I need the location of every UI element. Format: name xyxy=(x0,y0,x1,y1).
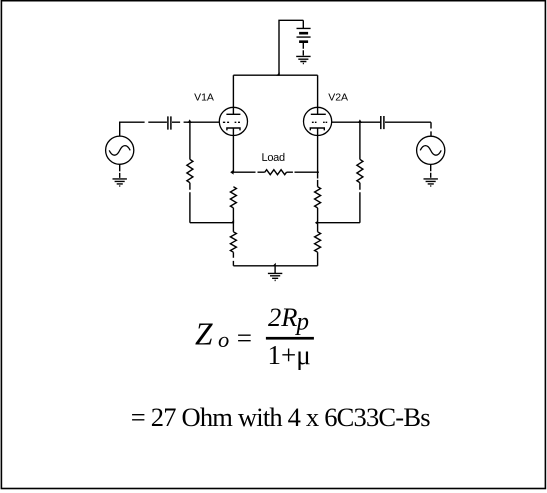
resistor left cathode lower xyxy=(230,223,236,266)
node bottom ground junction xyxy=(272,263,276,267)
svg-text:Z: Z xyxy=(195,317,213,352)
wire capacitor to V1A grid xyxy=(172,121,219,123)
wire left source top lead to capacitor xyxy=(120,122,167,136)
resistor right cathode lower xyxy=(315,223,321,266)
svg-text:=: = xyxy=(237,323,252,353)
ground (left source) xyxy=(113,179,127,186)
wire bottom ground stub xyxy=(274,266,276,274)
resistor right grid xyxy=(357,122,363,223)
wire battery top lead xyxy=(302,20,304,28)
AC source left xyxy=(106,136,134,164)
wire V1A plate lead xyxy=(232,75,234,114)
wire plate bus xyxy=(233,74,317,76)
svg-text:V1A: V1A xyxy=(194,92,214,104)
wire right grid resistor to cathode node xyxy=(318,222,360,224)
svg-text:2R: 2R xyxy=(268,302,297,332)
wire bottom bus xyxy=(233,265,317,267)
wire V2A cathode lead xyxy=(317,128,319,172)
wire V1A cathode lead xyxy=(232,128,234,172)
ground (top supply) xyxy=(296,56,310,63)
svg-text:= 27 Ohm with 4 x 6C33C-Bs: = 27 Ohm with 4 x 6C33C-Bs xyxy=(131,402,430,432)
node right cathode junction xyxy=(315,221,318,225)
battery B+ supply xyxy=(297,28,311,41)
resistor left cathode upper xyxy=(230,187,236,223)
resistor left grid xyxy=(187,122,193,223)
triode V2A xyxy=(304,107,332,135)
ground (right source) xyxy=(424,179,438,186)
resistor right cathode upper xyxy=(315,172,321,223)
ground (bottom) xyxy=(268,273,282,280)
triode V1A xyxy=(219,107,247,135)
wire left grid resistor to cathode node xyxy=(190,222,234,224)
wire right source bottom lead xyxy=(430,164,432,177)
formula fraction bar xyxy=(266,337,314,340)
wire V2A grid to right resistor and capacitor xyxy=(332,121,381,123)
resistor Load xyxy=(233,170,319,175)
wire riser from plate bus up to supply xyxy=(279,20,303,75)
node left grid junction xyxy=(188,119,192,123)
AC source right xyxy=(417,136,445,164)
svg-text:1+μ: 1+μ xyxy=(268,340,311,370)
node load left junction xyxy=(230,170,233,175)
svg-text:o: o xyxy=(218,327,229,352)
node junction riser/bus xyxy=(276,72,280,76)
wire battery to ground xyxy=(302,43,304,56)
wire capacitor to right source xyxy=(385,122,431,136)
svg-text:Load: Load xyxy=(261,152,284,164)
wire left source bottom lead xyxy=(119,164,121,178)
capacitor right coupling xyxy=(381,116,384,129)
capacitor left coupling xyxy=(168,116,171,129)
node left cathode junction xyxy=(231,220,235,224)
wire V2A plate lead xyxy=(317,75,319,114)
node right grid junction xyxy=(358,119,362,123)
svg-text:V2A: V2A xyxy=(328,92,348,104)
svg-text:p: p xyxy=(295,309,310,336)
